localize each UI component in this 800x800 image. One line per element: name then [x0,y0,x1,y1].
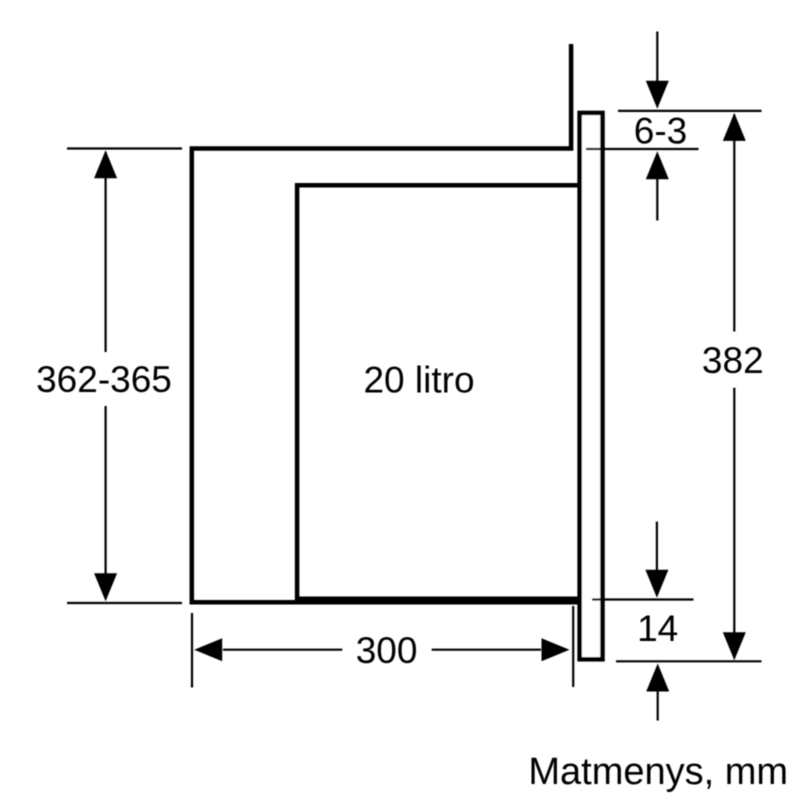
dim 300 right arrowhead [542,638,570,661]
dim 14 lower line [616,660,762,662]
svg-text:300: 300 [356,630,418,671]
dim 362-365 line upper segment [104,152,106,352]
dim 362-365 top extension line [67,147,182,149]
dim 362-365 line lower segment [104,406,106,599]
dim 300 left arrowhead [194,638,222,661]
dim text 300 [356,630,418,671]
svg-text:6-3: 6-3 [634,111,687,152]
svg-text:20 litro: 20 litro [363,359,474,400]
front panel [580,113,603,659]
dim 300 line left segment [223,649,342,651]
dim 382 line lower segment [733,388,735,658]
dim 14 upper line [592,598,694,600]
dim 300 right extension line [572,606,574,687]
dim 300 left extension line [191,613,193,688]
svg-text:382: 382 [702,340,764,381]
dim 6-3 up arrowhead [646,151,669,179]
svg-text:362-365: 362-365 [36,359,172,400]
dim 6-3 up arrow line [656,179,658,221]
dim 362-365 up arrowhead [94,150,117,178]
cavity outline [297,185,577,599]
dim text 362-365 [36,359,172,400]
dim text 382 [702,340,764,381]
dim 6-3 lower line [586,148,699,150]
svg-text:14: 14 [637,608,678,649]
dim 382 up arrowhead [723,113,746,141]
label 20 litro [363,359,474,400]
dim 362-365 bottom extension line [67,602,182,604]
dim 6-3 upper line [618,110,762,112]
dim 382 down arrowhead [723,632,746,660]
dim 14 up arrow line [657,691,659,721]
dim 14 up arrowhead [646,664,669,692]
caption Matmenys, mm [528,751,788,793]
dim 382 line upper segment [733,115,735,332]
dim 14 down arrow line [656,522,658,572]
svg-text:Matmenys, mm: Matmenys, mm [528,751,788,793]
dim 14 down arrowhead [645,570,668,598]
niche outline [192,44,578,602]
dim 300 line right segment [432,649,541,651]
dim text 14 [637,608,678,649]
dim text 6-3 [634,111,687,152]
dim 362-365 down arrowhead [94,573,117,601]
dim 6-3 down arrowhead [646,81,669,109]
dim 6-3 down arrow line [656,32,658,83]
